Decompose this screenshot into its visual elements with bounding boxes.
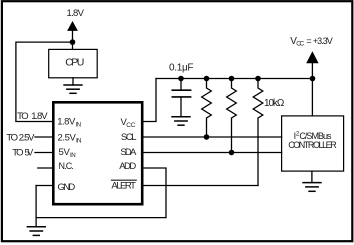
svg-text:CC: CC bbox=[296, 41, 304, 48]
svg-text:=: = bbox=[306, 36, 311, 46]
svg-text:5V: 5V bbox=[59, 147, 71, 158]
svg-text:1.8V: 1.8V bbox=[31, 111, 48, 122]
svg-text:ADD: ADD bbox=[119, 161, 136, 172]
svg-text:2.5V: 2.5V bbox=[58, 132, 77, 143]
svg-text:GND: GND bbox=[58, 182, 76, 193]
svg-text:1.8V: 1.8V bbox=[67, 8, 85, 19]
svg-text:CONTROLLER: CONTROLLER bbox=[288, 140, 337, 150]
svg-text:ALERT: ALERT bbox=[111, 181, 136, 192]
svg-text:IN: IN bbox=[76, 122, 82, 129]
svg-text:TO: TO bbox=[17, 111, 29, 122]
svg-text:N.C.: N.C. bbox=[59, 161, 74, 171]
svg-text:TO: TO bbox=[12, 147, 23, 158]
svg-text:CC: CC bbox=[126, 122, 135, 129]
svg-text:2.5V: 2.5V bbox=[19, 133, 35, 144]
svg-text:SDA: SDA bbox=[120, 147, 137, 158]
svg-text:+3.3V: +3.3V bbox=[313, 36, 333, 46]
svg-text:5V: 5V bbox=[25, 147, 34, 157]
svg-text:IN: IN bbox=[70, 152, 76, 159]
svg-text:1.8V: 1.8V bbox=[57, 117, 76, 128]
svg-text:SCL: SCL bbox=[121, 132, 137, 143]
svg-text:0.1μF: 0.1μF bbox=[169, 63, 194, 74]
svg-text:10kΩ: 10kΩ bbox=[264, 98, 285, 109]
svg-text:TO: TO bbox=[6, 133, 18, 144]
svg-text:CPU: CPU bbox=[65, 57, 84, 69]
svg-text:IN: IN bbox=[76, 137, 82, 144]
